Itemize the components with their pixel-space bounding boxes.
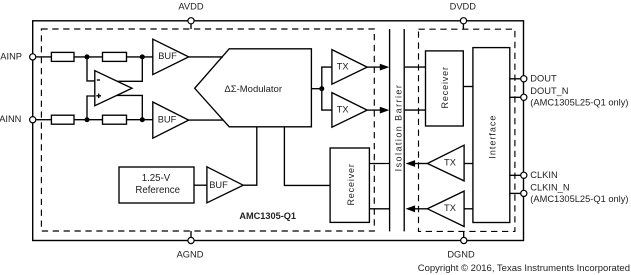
buffer BUF1 — [153, 39, 189, 74]
svg-text:Reference: Reference — [135, 185, 180, 196]
wire DGND stub — [463, 231, 465, 237]
svg-text:Receiver: Receiver — [346, 163, 356, 205]
wire interface to CLKIN_N — [510, 192, 521, 194]
wire AINN to R3 — [36, 119, 52, 121]
wire receiver A to barrier top — [369, 163, 389, 165]
transmitter TX3 — [427, 145, 464, 181]
svg-text:CLKIN: CLKIN — [530, 170, 557, 180]
isolation barrier line right — [403, 29, 405, 231]
delta-sigma modulator block — [195, 49, 312, 127]
wire R2 to BUF1 — [127, 56, 153, 58]
wire R4 to BUF2 — [127, 119, 153, 121]
junction dot node D — [140, 117, 145, 122]
wire AGND stub — [190, 231, 192, 237]
terminal DOUT — [521, 76, 527, 82]
wire receiver D to interface — [463, 86, 473, 88]
wire interface to CLKIN — [510, 174, 521, 176]
wire AVDD stub — [190, 24, 192, 29]
wire BUF2 to modulator — [189, 119, 224, 121]
op-amp U1 — [95, 71, 132, 106]
1.25-V reference box — [119, 167, 194, 203]
svg-text:(AMC1305L25-Q1 only): (AMC1305L25-Q1 only) — [530, 97, 628, 107]
svg-text:1.25-V: 1.25-V — [142, 173, 171, 184]
wire modulator output — [311, 88, 321, 90]
transmitter TX4 — [427, 191, 464, 226]
wire BUF1 to modulator — [189, 56, 223, 58]
arrowhead TX1 — [380, 64, 390, 71]
buffer BUF2 — [153, 102, 189, 138]
terminal AINP — [30, 54, 36, 60]
svg-text:AVDD: AVDD — [178, 2, 203, 12]
wire feedback bottom — [117, 95, 143, 119]
svg-text:ΔΣ-Modulator: ΔΣ-Modulator — [224, 84, 282, 95]
arrowhead TX3 — [406, 160, 416, 167]
svg-text:DOUT_N: DOUT_N — [530, 86, 568, 96]
terminal AVDD — [188, 18, 194, 24]
svg-text:Interface: Interface — [488, 115, 498, 159]
wire TX3 to barrier — [414, 163, 427, 165]
arrowhead TX4 — [406, 205, 416, 212]
terminal AGND — [188, 237, 194, 243]
wire BUF3 to modulator bottom — [243, 127, 257, 185]
svg-text:AGND: AGND — [177, 249, 204, 259]
wire TX4 to barrier — [414, 208, 427, 210]
svg-text:BUF: BUF — [158, 114, 177, 124]
wire op-amp inverting input — [87, 57, 95, 81]
svg-text:(AMC1305L25-Q1 only): (AMC1305L25-Q1 only) — [530, 194, 628, 204]
resistor R4 — [103, 115, 127, 124]
terminal CLKIN — [521, 172, 527, 178]
receiver block digital — [426, 51, 464, 126]
junction dot node C — [85, 117, 90, 122]
svg-text:DOUT: DOUT — [530, 74, 557, 84]
high-side dashed boundary — [41, 29, 374, 231]
terminal DVDD — [460, 18, 466, 24]
svg-text:AINN: AINN — [0, 114, 21, 124]
op-amp plus sign — [96, 94, 101, 99]
wire barrier to receiver D bottom — [405, 109, 426, 111]
svg-text:DGND: DGND — [447, 249, 475, 259]
svg-text:Receiver: Receiver — [440, 66, 450, 108]
svg-text:TX: TX — [444, 158, 456, 168]
wire AINP to R1 — [36, 56, 52, 58]
wire feedback top — [117, 57, 142, 81]
terminal DGND — [461, 237, 467, 243]
low-side dashed boundary — [419, 29, 515, 231]
wire barrier to receiver D top — [405, 66, 426, 68]
wire TX split — [322, 67, 332, 110]
resistor R1 — [51, 52, 74, 61]
wire DVDD stub — [462, 24, 464, 29]
wire TX1 to barrier — [367, 66, 381, 68]
svg-text:AMC1305-Q1: AMC1305-Q1 — [239, 211, 296, 221]
svg-text:TX: TX — [337, 105, 349, 115]
wire interface to DOUT — [510, 78, 521, 80]
wire receiver A to barrier bottom — [369, 208, 389, 210]
resistor R3 — [51, 115, 74, 124]
isolation barrier line left — [389, 29, 391, 231]
svg-text:Isolation Barrier: Isolation Barrier — [393, 84, 403, 172]
svg-text:BUF: BUF — [158, 51, 177, 61]
transmitter TX1 — [332, 50, 367, 85]
wire op-amp noninverting input — [87, 96, 95, 120]
interface block — [473, 48, 510, 223]
buffer BUF3 — [207, 167, 243, 203]
terminal CLKIN_N — [521, 190, 527, 196]
arrowhead TX2 — [380, 107, 390, 114]
svg-text:TX: TX — [337, 62, 349, 72]
wire reference to BUF3 — [194, 184, 207, 186]
svg-text:DVDD: DVDD — [450, 2, 477, 12]
svg-text:CLKIN_N: CLKIN_N — [530, 182, 569, 192]
op-amp minus sign — [97, 79, 100, 81]
outer package boundary — [33, 21, 524, 241]
svg-text:AINP: AINP — [0, 51, 22, 61]
terminal AINN — [30, 117, 36, 123]
terminal DOUT_N — [521, 94, 527, 100]
junction dot modulator output — [319, 86, 324, 91]
svg-text:BUF: BUF — [209, 180, 228, 190]
transmitter TX2 — [332, 93, 367, 128]
resistor R2 — [103, 52, 127, 61]
receiver block analog — [330, 148, 369, 222]
wire interface to DOUT_N — [510, 96, 521, 98]
wire TX3 to interface — [464, 163, 473, 165]
wire TX4 to interface — [464, 208, 473, 210]
wire R3 to R4 — [74, 119, 103, 121]
svg-text:Copyright © 2016, Texas Instru: Copyright © 2016, Texas Instruments Inco… — [418, 263, 630, 274]
junction dot node B — [140, 54, 145, 59]
wire modulator to receiver A — [284, 127, 330, 186]
wire TX2 to barrier — [367, 109, 381, 111]
junction dot node A — [85, 54, 90, 59]
svg-text:TX: TX — [444, 203, 456, 213]
wire R1 to R2 — [74, 56, 103, 58]
